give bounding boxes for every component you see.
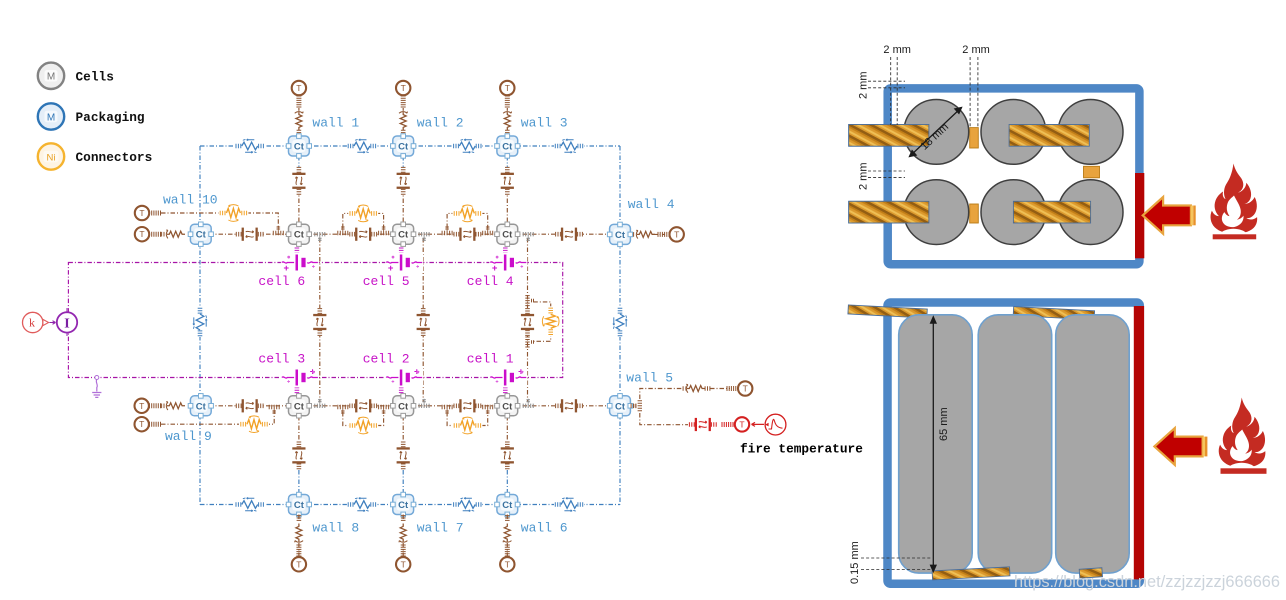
connector stub wall 3 <box>505 130 510 135</box>
cell A1 cylindrical cell <box>904 99 969 164</box>
svg-text:wall 4: wall 4 <box>628 197 675 212</box>
wire cell column to wall 6 <box>506 416 508 470</box>
wire wall 1 to cell column <box>298 156 300 170</box>
busbar row2 right overlay <box>1013 201 1090 223</box>
svg-text:wall 6: wall 6 <box>521 521 568 536</box>
junction tee cell4-cell1 lower <box>525 337 533 347</box>
battery cell 2 <box>385 367 423 388</box>
heat capacitor Ct wall 8 <box>286 492 311 516</box>
battery cell 6 <box>281 253 319 275</box>
wire wall4 to T <box>653 233 665 235</box>
heat capacitor Ct wall 10 <box>188 222 213 246</box>
connector stub wall 7 bottom <box>401 545 406 556</box>
svg-text:M: M <box>47 112 55 123</box>
convection element bottom rail x467 <box>452 496 482 513</box>
svg-text:wall 2: wall 2 <box>417 116 464 131</box>
connector stub fire <box>722 422 733 427</box>
convection element left rail <box>192 307 209 337</box>
conduction element wall9-cell3 <box>236 398 264 414</box>
junction tee bypass right pair1 top <box>379 226 389 235</box>
conduction element vertical x319 <box>312 308 328 336</box>
wire cell bottom row <box>190 405 610 407</box>
ground <box>92 380 101 398</box>
pack side-view heated wall (red) <box>1134 306 1144 579</box>
busbar row2 left overlay <box>849 201 929 223</box>
resistor wall10 <box>166 228 188 240</box>
wire blue top rail <box>200 145 620 147</box>
heat capacitor Ct cell 6 <box>286 222 311 246</box>
wire cell bus x527 <box>527 238 529 402</box>
connector cellA1-cellA2 <box>970 128 979 148</box>
svg-text:M: M <box>47 72 55 83</box>
connector stub wall 2 <box>401 130 406 135</box>
conduction element below wall 2 <box>395 167 411 195</box>
wire wall 1 top feed <box>298 108 300 136</box>
svg-text:65 mm: 65 mm <box>938 407 950 441</box>
legend cells symbol <box>38 63 64 89</box>
convection element bottom rail x361 <box>347 496 377 513</box>
conduction element vertical x423 <box>415 308 431 336</box>
connector stub wall 7 <box>401 516 406 521</box>
svg-text:cell 3: cell 3 <box>258 352 305 367</box>
svg-text:2 mm: 2 mm <box>962 44 990 56</box>
junction tee bottom-left <box>269 405 279 414</box>
temperature source T wall10 bypass <box>135 206 149 220</box>
cell B2 cylindrical cell <box>981 180 1046 245</box>
conduction element cell4-cell1 <box>520 308 536 336</box>
resistor wall4 right <box>636 228 658 240</box>
temperature source T wall10 <box>135 227 149 241</box>
resistor wall9 <box>166 400 188 412</box>
pack top-view heated wall (red) <box>1135 173 1144 258</box>
resistor wall 2 top <box>397 111 409 133</box>
svg-text:https://blog.csdn.net/zzjzzjzz: https://blog.csdn.net/zzjzzjzzj666666 <box>1014 573 1280 591</box>
battery cell 3 stub <box>295 388 300 393</box>
conduction element above wall 6 <box>499 441 515 469</box>
conduction element pair2 top <box>453 226 481 242</box>
junction tee bypass left pair2 top <box>442 226 452 235</box>
conduction element below wall 1 <box>291 167 307 195</box>
conduction element fire <box>689 417 717 433</box>
temperature source T wall5 branch <box>738 381 752 395</box>
heat capacitor Ct cell 1 <box>495 394 520 418</box>
temperature source T wall 6 bottom <box>500 557 514 571</box>
conduction element pair2 bottom <box>453 398 481 414</box>
connector stub wall 8 <box>297 516 302 521</box>
junction tee bus cell 3 <box>315 399 325 408</box>
cell B3 cylindrical cell <box>1058 180 1123 245</box>
junction tee cell4-cell1 upper <box>525 296 533 306</box>
resistor wall 3 top <box>501 111 513 133</box>
convection element top rail x249 <box>235 138 265 155</box>
connector stub <box>150 403 161 408</box>
battery cell 2 stub <box>399 388 404 393</box>
temperature source T fire <box>735 417 749 431</box>
wire cell column to wall 8 <box>298 416 300 470</box>
pack side-view frame <box>888 303 1140 584</box>
wire cell bus x319 <box>319 238 321 402</box>
temperature source T wall 2 top <box>396 81 410 95</box>
resistor wall 6 bottom <box>501 521 513 543</box>
heat capacitor Ct cell 5 <box>391 222 416 246</box>
wire wall5 upper branch <box>640 389 683 400</box>
junction tee bypass left pair1 bottom <box>338 405 348 414</box>
connector stub <box>683 386 688 391</box>
busbar row2 left <box>849 201 929 223</box>
busbar row1 right overlay <box>1009 125 1089 147</box>
busbar row1 left overlay <box>849 125 929 147</box>
svg-text:wall 9: wall 9 <box>165 429 212 444</box>
wire wall 6 bottom feed <box>506 515 508 558</box>
flame underline bottom <box>1221 468 1267 474</box>
battery cell 5 <box>385 253 423 275</box>
connector cellA3-cellB3 <box>1084 166 1100 178</box>
connector resistor Ni cell4-cell1 <box>541 306 560 336</box>
junction tee wall5 <box>634 401 642 411</box>
connector stub <box>150 232 161 237</box>
busbar side bottom-right <box>1079 568 1102 579</box>
wire bypass pair2 bottom <box>447 412 488 426</box>
battery cell 3 <box>281 367 319 388</box>
heat capacitor Ct wall 6 <box>495 492 520 516</box>
svg-text:2 mm: 2 mm <box>858 72 870 100</box>
connector stub <box>705 386 710 391</box>
wire bypass pair1 top <box>343 213 384 228</box>
cell B1 cylindrical cell <box>904 180 969 245</box>
pack top-view frame <box>888 88 1140 264</box>
heat capacitor Ct wall 9 <box>188 394 213 418</box>
junction tee bypass right pair2 top <box>483 226 493 235</box>
connector stub wall5 right <box>631 404 636 409</box>
svg-text:wall 1: wall 1 <box>312 116 359 131</box>
flame icon bottom <box>1219 398 1266 469</box>
connector stub <box>658 232 669 237</box>
connector stub wall 2 top <box>401 96 406 107</box>
svg-text:I: I <box>64 316 69 331</box>
connector resistor Ni top-left <box>218 204 248 223</box>
heat capacitor Ct wall 4 <box>607 222 632 246</box>
busbar row2 right <box>1013 201 1090 223</box>
convection element top rail x569 <box>554 138 584 155</box>
heat capacitor Ct wall 3 <box>495 134 520 158</box>
wire wall 2 to cell column <box>402 156 404 170</box>
svg-text:k: k <box>29 316 35 330</box>
busbar side top-left <box>848 305 927 318</box>
signal gain k <box>23 312 49 332</box>
flame underline top <box>1213 234 1257 239</box>
convection element bottom rail x569 <box>554 496 584 513</box>
legend packaging symbol <box>38 103 64 129</box>
temperature source T wall9 bypass <box>135 417 149 431</box>
wire wall 3 to cell column <box>506 156 508 170</box>
connector resistor Ni pair1 top <box>348 204 378 223</box>
svg-text:fire temperature: fire temperature <box>740 442 863 457</box>
wire blue right rail <box>619 146 621 505</box>
connector stub wall 1 top <box>296 96 301 107</box>
conduction element below wall 3 <box>499 167 515 195</box>
wire wall 3 top feed <box>506 108 508 136</box>
busbar side bottom-left <box>932 567 1010 580</box>
wire blue bottom rail <box>200 504 620 506</box>
svg-text:Cells: Cells <box>76 70 114 85</box>
connector stub <box>727 386 738 391</box>
fire arrow top <box>1143 197 1196 234</box>
wire electrical loop <box>68 263 562 378</box>
heat capacitor Ct wall 7 <box>391 492 416 516</box>
connector stub wall 3 top <box>505 96 510 107</box>
heat capacitor Ct cell 3 <box>286 394 311 418</box>
current source I <box>57 308 77 336</box>
dimension 65mm arrow <box>931 317 936 572</box>
signal source fire pulse <box>765 414 786 435</box>
connector stub <box>162 404 167 409</box>
connector resistor Ni pair2 bottom <box>452 416 482 435</box>
junction tee bypass right pair2 bottom <box>483 405 493 414</box>
connector stub wall 8 bottom <box>296 545 301 556</box>
connector stub <box>150 422 161 427</box>
connector stub wall 6 bottom <box>505 545 510 556</box>
heat capacitor Ct cell 4 <box>495 222 520 246</box>
svg-text:Packaging: Packaging <box>76 110 145 125</box>
busbar row1 left <box>849 125 929 147</box>
junction tee bus cell 5 <box>419 232 429 241</box>
svg-text:wall 5: wall 5 <box>626 371 673 386</box>
wire wall5 lower branch <box>640 413 688 425</box>
battery cell 4 <box>489 253 527 275</box>
junction tee bus cell 6 <box>315 232 325 241</box>
cell P3 pouch cell <box>1056 315 1130 573</box>
resistor wall 1 top <box>293 111 305 133</box>
junction tee bus cell 2 <box>419 399 429 408</box>
svg-text:0.15 mm: 0.15 mm <box>849 541 861 584</box>
svg-text:2 mm: 2 mm <box>858 163 870 191</box>
cell A2 cylindrical cell <box>981 99 1046 164</box>
conduction element wall10-cell6 <box>236 226 264 242</box>
battery cell 4 stub <box>503 248 508 253</box>
heat capacitor Ct wall 2 <box>391 134 416 158</box>
wire bypass top-left <box>161 213 278 228</box>
connector resistor Ni bottom-left <box>239 415 269 434</box>
svg-text:wall 3: wall 3 <box>521 116 568 131</box>
temperature source T wall 3 top <box>500 81 514 95</box>
wire blue left rail <box>199 146 201 505</box>
conduction element cell4-wall4 <box>555 226 583 242</box>
conduction element pair1 bottom <box>349 398 377 414</box>
busbar row1 right <box>1009 125 1089 147</box>
ground node junction <box>95 376 99 380</box>
svg-text:cell 5: cell 5 <box>363 274 410 289</box>
busbar side top-right <box>1013 307 1094 320</box>
heat capacitor Ct wall 5 <box>607 394 632 418</box>
heat capacitor Ct cell 2 <box>391 394 416 418</box>
wire bypass pair2 top <box>447 213 488 228</box>
connector cellB1-cellB2 <box>970 204 979 223</box>
connector stub <box>162 232 167 237</box>
conduction element pair1 top <box>349 226 377 242</box>
battery cell 5 stub <box>399 248 404 253</box>
convection element top rail x467 <box>452 138 482 155</box>
dimension 18mm arrow <box>910 108 962 157</box>
legend connectors symbol <box>38 143 64 169</box>
svg-text:wall 7: wall 7 <box>417 521 464 536</box>
svg-text:cell 1: cell 1 <box>467 352 514 367</box>
connector stub wall 6 <box>505 516 510 521</box>
connector stub wall 1 <box>297 130 302 135</box>
convection element top rail x361 <box>347 138 377 155</box>
wire k to I arrow <box>50 321 56 325</box>
fire arrow bottom <box>1154 428 1207 465</box>
junction tee bus cell 1 <box>523 399 533 408</box>
temperature source T wall 8 bottom <box>292 557 306 571</box>
cell A3 cylindrical cell <box>1058 99 1123 164</box>
wire to T <box>710 388 730 390</box>
svg-text:cell 2: cell 2 <box>363 352 410 367</box>
svg-text:wall 10: wall 10 <box>163 193 218 208</box>
svg-text:2 mm: 2 mm <box>883 44 911 56</box>
wire bypass bottom-left <box>161 410 274 424</box>
wire pulse to T arrow <box>752 422 765 426</box>
wire cell bus x423 <box>422 238 424 402</box>
convection element bottom rail x249 <box>235 496 265 513</box>
flame icon top <box>1211 164 1258 235</box>
junction tee bypass left pair1 top <box>338 226 348 235</box>
connector stub wall4 right <box>634 232 639 237</box>
temperature source T wall 7 bottom <box>396 557 410 571</box>
wire cell top row <box>190 233 610 235</box>
conduction element above wall 7 <box>395 441 411 469</box>
junction tee top-left <box>273 226 283 235</box>
convection element right rail <box>612 307 629 337</box>
junction tee bus cell 4 <box>523 232 533 241</box>
wire connector bypass cell4-cell1 <box>533 302 550 341</box>
cell P2 pouch cell <box>978 315 1051 573</box>
wire cell column to wall 7 <box>402 416 404 470</box>
svg-text:Connectors: Connectors <box>76 150 153 165</box>
heat capacitor Ct wall 1 <box>286 134 311 158</box>
wire bypass pair1 bottom <box>343 412 384 426</box>
temperature source T wall9 <box>135 399 149 413</box>
conduction element above wall 8 <box>291 441 307 469</box>
conduction element cell1-wall5 <box>555 398 583 414</box>
connector resistor Ni pair2 top <box>452 204 482 223</box>
wire wall 7 bottom feed <box>402 515 404 558</box>
temperature source T wall 1 top <box>292 81 306 95</box>
cell P1 pouch cell <box>899 315 973 573</box>
temperature source T wall4 <box>670 227 684 241</box>
battery cell 6 stub <box>295 248 300 253</box>
connector stub <box>150 211 161 216</box>
svg-text:wall 8: wall 8 <box>312 521 359 536</box>
battery cell 1 stub <box>503 388 508 393</box>
wire wall 8 bottom feed <box>298 515 300 558</box>
battery cell 1 <box>489 367 527 388</box>
junction tee bypass right pair1 bottom <box>379 405 389 414</box>
resistor wall 7 bottom <box>397 521 409 543</box>
svg-text:Ni: Ni <box>47 152 56 163</box>
wire wall 2 top feed <box>402 108 404 136</box>
connector resistor Ni pair1 bottom <box>348 416 378 435</box>
resistor wall5 branch <box>686 383 708 395</box>
svg-text:cell 6: cell 6 <box>258 274 305 289</box>
svg-text:cell 4: cell 4 <box>467 274 514 289</box>
resistor wall 8 bottom <box>293 521 305 543</box>
junction tee bypass left pair2 bottom <box>442 405 452 414</box>
